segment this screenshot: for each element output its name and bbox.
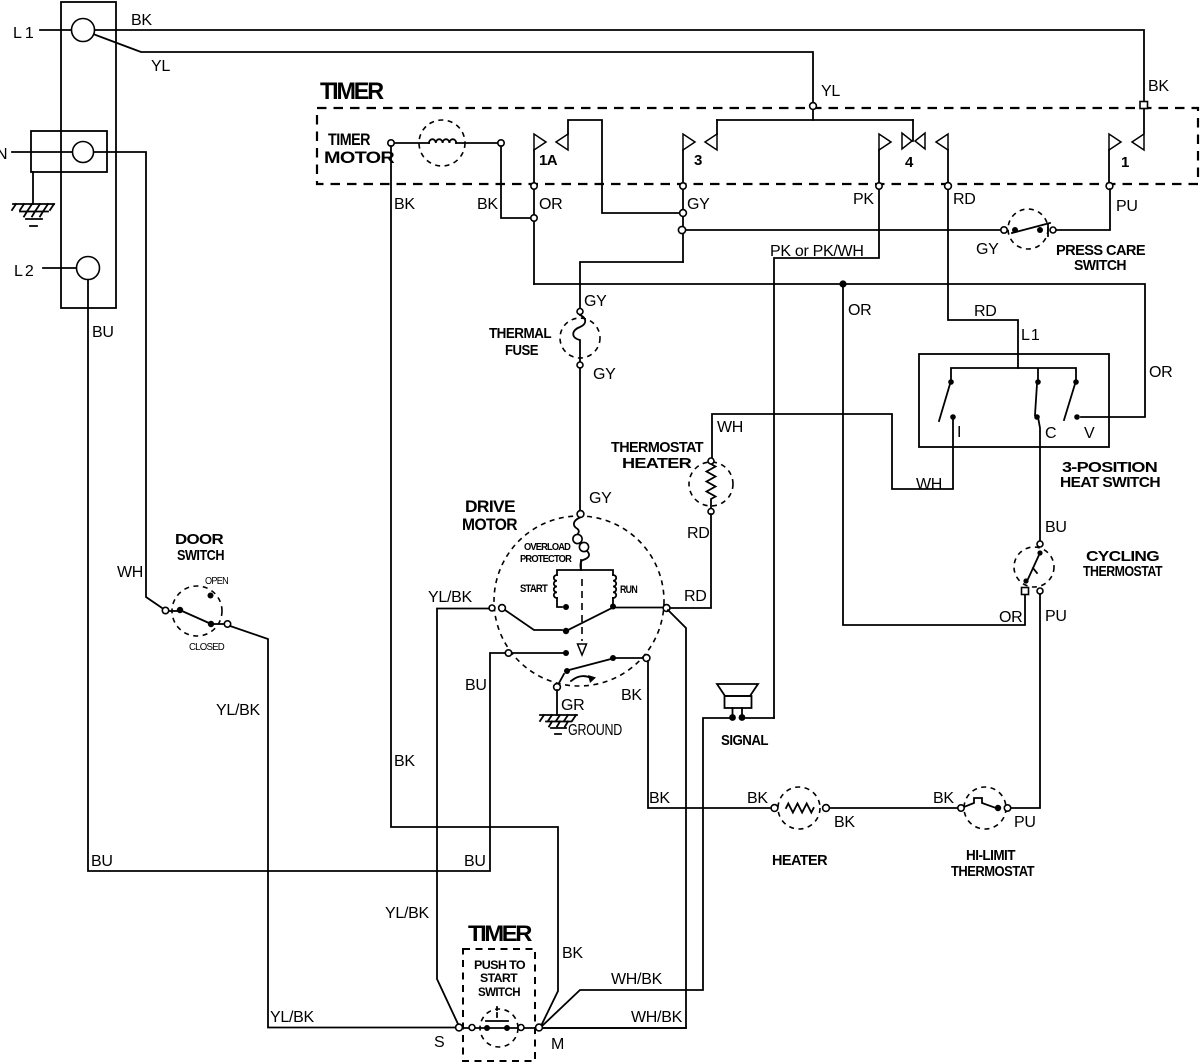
svg-text:YL/BK: YL/BK [385,905,429,922]
contact 1A right lead [568,120,679,213]
contact 4 right lead [948,150,1018,368]
wire to BK terminal [616,657,643,659]
svg-text:START: START [480,971,518,985]
svg-text:BK: BK [394,196,415,213]
heat switch pole I [939,379,961,441]
run winding [613,575,616,598]
svg-text:L2: L2 [14,263,36,280]
wire GY: node to press care switch [686,229,1001,231]
heat switch pole C [1034,379,1056,442]
heat switch bus [951,368,1076,381]
motor terminal YL/BK inner [499,605,506,612]
wire L1 lead [40,29,71,31]
svg-text:TIMER: TIMER [320,78,384,105]
svg-text:OPEN: OPEN [205,576,229,587]
svg-text:BU: BU [465,677,487,694]
lower switch dot right [610,655,616,661]
motor windings frame [557,560,613,607]
svg-text:RD: RD [953,191,976,208]
ground at N [12,172,54,226]
push-to-start switch [434,1007,686,1053]
wire YL/BK blade [505,610,562,630]
heat switch pole V [1064,379,1095,442]
contact 4 right flag [936,134,948,150]
wire BU row [512,652,563,654]
wire L2 lead [43,267,76,269]
svg-text:GR: GR [561,697,584,714]
ground link [559,674,564,683]
svg-text:GROUND: GROUND [568,722,622,739]
svg-text:SWITCH: SWITCH [177,547,224,564]
svg-text:WH/BK: WH/BK [611,971,663,988]
svg-text:YL: YL [151,58,170,75]
svg-text:TIMER: TIMER [328,130,370,149]
svg-text:WH: WH [717,419,743,436]
lower switch dot left [564,668,570,674]
wire WH: heat switch I to thermostat heater [712,414,953,489]
wire BK: timer motor right lead [501,146,531,218]
BU row dot [563,650,569,656]
wire GY: press care to contact 1 [1055,189,1110,230]
contact 1 left flag [1109,134,1121,150]
door switch [162,576,230,653]
thermostat heater [611,439,733,515]
svg-text:3: 3 [694,152,702,169]
svg-text:YL/BK: YL/BK [216,702,260,719]
blade dot mid [563,628,569,634]
heat switch box [919,354,1109,447]
node BK joins OR [531,215,537,221]
wire BU: L2 to drive motor switch [88,280,505,871]
svg-text:BK: BK [747,790,768,807]
svg-text:GY: GY [584,293,607,310]
wire BU: heat switch C to cycling thermostat [1038,417,1040,541]
lower switch blade [569,659,611,670]
svg-text:YL: YL [821,83,840,100]
node square cycling left [1022,588,1029,595]
svg-text:BK: BK [834,814,855,831]
svg-text:OR: OR [848,302,871,319]
svg-text:BK: BK [649,790,670,807]
wire WH/BK: push-to-start M to signal [541,718,729,1027]
heater [771,787,829,869]
svg-text:YL/BK: YL/BK [428,589,472,606]
wire YL: L1 to timer contacts 3-4 [93,34,813,120]
wire OR: 1A to heat switch V [534,284,1145,417]
cycling thermostat [1014,541,1162,594]
svg-text:V: V [1084,425,1095,442]
svg-text:HEATER: HEATER [622,455,692,472]
svg-text:4: 4 [905,154,914,171]
wire BK: heater to hi-limit [830,807,958,809]
start winding [554,575,557,598]
node GY mid [680,210,687,217]
svg-text:RD: RD [687,525,710,542]
svg-text:PUSH TO: PUSH TO [474,958,525,972]
svg-text:RUN: RUN [620,584,638,596]
wire PU: cycling to hi-limit [1011,594,1040,808]
svg-text:BU: BU [91,853,113,870]
contact 3 right flag [705,134,717,150]
motor switch blade run [568,609,611,631]
wire GY: fuse to drive motor [579,368,581,510]
wire N lead [12,151,72,153]
node PK on timer border [876,183,882,189]
ground terminal [554,684,561,691]
svg-text:BU: BU [92,324,114,341]
svg-text:OR: OR [999,609,1022,626]
svg-text:GY: GY [593,366,616,383]
svg-text:SIGNAL: SIGNAL [721,732,768,749]
junction dot OR [839,280,846,287]
ground symbol [540,690,577,734]
contact 4 left lead [774,150,879,718]
wire OR: junction to cycling thermostat [843,284,1025,625]
signal [717,684,768,749]
terminal N box [31,131,107,172]
svg-text:BK: BK [394,753,415,770]
node GY low [678,226,685,233]
svg-text:DOOR: DOOR [175,531,224,548]
svg-text:1: 1 [1121,154,1129,171]
contact 3 right lead [716,120,718,134]
wire GY: contact 3 to thermal fuse [580,262,683,308]
svg-text:PU: PU [1014,814,1036,831]
timer dashed box [317,108,1198,184]
wire YL/BK: motor branch to S [437,609,489,1025]
motor RD terminal [663,605,670,612]
node YL on timer border [810,103,817,110]
svg-text:SWITCH: SWITCH [1074,257,1126,274]
svg-text:THERMOSTAT: THERMOSTAT [951,863,1034,880]
svg-text:PROTECTOR: PROTECTOR [520,554,573,565]
terminal L1 [72,19,95,42]
wire YL connector [717,119,913,121]
svg-text:TIMER: TIMER [468,921,532,946]
svg-text:GY: GY [589,490,612,507]
motor terminal YL/BK outer [489,605,495,611]
wire BK: L1 to timer contact 1 [95,30,1144,133]
svg-text:S: S [434,1034,444,1051]
svg-text:THERMOSTAT: THERMOSTAT [1083,563,1162,580]
wire BK: timer motor to push-to-start M [391,146,558,1026]
node BK square on timer border [1140,102,1148,109]
svg-text:I: I [957,424,961,441]
contact 3 left flag [683,134,695,150]
contact 1A left flag [534,134,546,150]
wire YL/BK: door switch to push-to-start S [230,626,455,1028]
svg-text:M: M [551,1036,564,1053]
timer motor [324,120,504,167]
contact 1 right flag [1132,134,1144,150]
svg-text:GY: GY [976,241,999,258]
svg-text:BK: BK [562,945,583,962]
terminal block [61,2,116,308]
svg-text:BK: BK [477,196,498,213]
svg-text:BK: BK [933,790,954,807]
svg-text:OR: OR [539,196,562,213]
node RD on timer border [945,183,952,190]
svg-text:MOTOR: MOTOR [462,515,517,534]
centrifugal arrow [578,644,587,655]
svg-text:THERMOSTAT: THERMOSTAT [611,439,703,456]
wire signal right lead [746,717,774,719]
contact 3 left lead [682,150,684,262]
overload protector [520,511,589,570]
thermal fuse [489,309,600,369]
svg-text:WH/BK: WH/BK [631,1009,683,1026]
node GY on timer border [680,183,686,189]
svg-text:L1: L1 [1021,327,1041,344]
contact 1A left lead [533,150,535,284]
svg-text:THERMAL: THERMAL [489,325,551,342]
wire WH: N to door switch [94,152,165,610]
svg-text:RD: RD [974,303,997,320]
BU row terminal [505,650,511,656]
svg-text:HI-LIMIT: HI-LIMIT [966,847,1015,864]
svg-text:N: N [0,146,7,163]
terminal L2 [77,257,100,280]
svg-text:MOTOR: MOTOR [324,148,394,167]
svg-text:L1: L1 [13,25,37,42]
svg-text:FUSE: FUSE [505,342,539,359]
contact 4 left flag [879,134,891,150]
svg-text:GY: GY [687,196,710,213]
contact 4 middle lead [912,120,914,141]
node OR on timer border [531,183,537,189]
svg-text:BK: BK [621,687,642,704]
drive motor [462,490,664,686]
svg-text:START: START [520,583,548,595]
svg-text:OVERLOAD: OVERLOAD [524,542,571,553]
svg-text:PK or PK/WH: PK or PK/WH [770,243,864,260]
svg-text:RD: RD [684,588,707,605]
wire WH/BK: M to motor RD terminal [543,610,686,1028]
svg-text:HEAT SWITCH: HEAT SWITCH [1060,474,1160,491]
svg-text:CLOSED: CLOSED [189,642,225,653]
rotation arrow [571,676,591,681]
svg-text:BK: BK [131,12,152,29]
contact 1 left lead [1108,150,1110,183]
press care switch [976,209,1146,274]
svg-text:BU: BU [1045,519,1067,536]
svg-text:OR: OR [1149,364,1172,381]
contact 4 diamond [902,133,925,149]
centrifugal actuator dashed line [581,579,583,641]
svg-text:1A: 1A [539,152,558,169]
run winding dot [610,604,616,610]
svg-text:HEATER: HEATER [772,852,828,869]
wire RD: thermostat heater to drive motor run [670,514,711,608]
terminal N [73,142,94,163]
bottom timer dashed box [463,949,535,1061]
svg-text:WH: WH [117,564,143,581]
wire BK: motor to heater [648,661,771,808]
svg-text:WH: WH [916,476,942,493]
svg-text:YL/BK: YL/BK [270,1009,314,1026]
node PU on timer border [1106,183,1113,190]
svg-text:SWITCH: SWITCH [478,985,520,999]
start winding dot [563,604,569,610]
svg-text:PU: PU [1045,608,1067,625]
svg-text:C: C [1045,425,1056,442]
svg-text:PK: PK [853,191,874,208]
contact 1A right flag [556,134,568,150]
motor BK terminal [643,655,650,662]
svg-text:BU: BU [464,853,486,870]
svg-text:DRIVE: DRIVE [465,497,515,516]
svg-text:BK: BK [1148,78,1169,95]
hi-limit thermostat [951,787,1034,880]
svg-text:PU: PU [1116,198,1138,215]
wire run to RD terminal [616,607,663,609]
